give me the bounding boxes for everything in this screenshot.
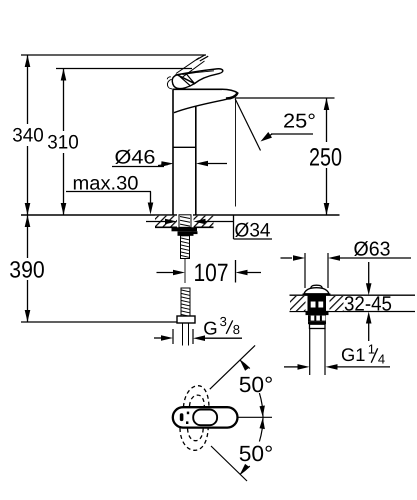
svg-text:4: 4 (378, 352, 385, 367)
svg-text:Ø34: Ø34 (235, 220, 271, 242)
svg-text:1: 1 (368, 342, 375, 357)
svg-text:8: 8 (233, 322, 240, 337)
top view small dash (180, 413, 184, 421)
dimension Ø63 (281, 255, 412, 261)
arc 50 upper (240, 360, 265, 417)
counter section bottom line (155, 226, 177, 228)
dimension G3/8 (154, 329, 242, 344)
faucet body (173, 89, 238, 215)
dimension 107 (157, 260, 262, 283)
svg-text:310: 310 (47, 132, 79, 154)
leader Ø46 underline and arrow (112, 161, 174, 167)
counter section hatch right (194, 216, 214, 227)
label G3/8 (203, 314, 240, 339)
label G1 1/4 (341, 342, 385, 367)
arc 50 lower (240, 417, 265, 474)
extension line top of handle (340 ref) (21, 54, 206, 56)
dimension G1 1/4 (284, 364, 390, 370)
dimension line 250 (324, 98, 330, 215)
handle knob (167, 74, 194, 89)
svg-text:G: G (203, 318, 217, 339)
leader Ø34 shelf (234, 215, 273, 240)
dimension line 390 (25, 215, 31, 322)
top view reference line (237, 416, 273, 418)
svg-text:25°: 25° (283, 111, 316, 133)
arrow Ø34 left (146, 219, 177, 225)
flexible hose threaded (181, 288, 190, 316)
drain counter band (290, 295, 416, 311)
counter top surface line (21, 214, 177, 216)
drain lock nut (306, 312, 329, 325)
svg-text:Ø46: Ø46 (115, 147, 156, 169)
svg-text:Ø63: Ø63 (354, 239, 391, 261)
center line below rod (184, 259, 186, 284)
extension line spout height (250 ref) (235, 97, 335, 99)
svg-text:250: 250 (309, 144, 342, 172)
arrow Ø34 right (194, 219, 234, 225)
mounting nut (178, 231, 198, 236)
top view dashed handle up position (184, 386, 210, 407)
svg-text:107: 107 (194, 259, 229, 287)
leader max.30 (66, 192, 153, 215)
svg-text:G1: G1 (341, 344, 365, 365)
top view tiny dots (187, 412, 189, 415)
threaded rod (181, 236, 190, 259)
svg-text:50°: 50° (239, 441, 274, 466)
handle raised position thin lines (176, 55, 208, 78)
extension line handle rest (310 ref) (56, 68, 192, 70)
drain collar (310, 324, 326, 328)
dimension 32-45 arrows (366, 262, 372, 341)
svg-text:3: 3 (220, 314, 227, 329)
svg-text:340: 340 (12, 125, 44, 147)
dimension line 340 (25, 55, 31, 215)
svg-text:390: 390 (9, 257, 45, 283)
arrow Ø46 right side (196, 161, 227, 167)
drain: flange extension lines (304, 253, 306, 288)
handle lever rest position (177, 69, 223, 84)
horseshoe washer (172, 227, 198, 231)
top view handle body (173, 407, 238, 427)
extension line hose end (390 ref) (21, 321, 177, 323)
hose tube (183, 323, 189, 346)
drain pipe (310, 329, 325, 376)
faucet shank thread through counter (179, 215, 191, 230)
counter section hatch left (155, 216, 177, 227)
dimension line 310 (61, 69, 67, 216)
svg-text:50°: 50° (239, 372, 274, 397)
25 degree ray from spout tip (235, 99, 261, 151)
leader 25 degree (261, 132, 314, 142)
hose nut (177, 316, 195, 323)
spout drop line (235, 99, 237, 207)
ray 50 down (211, 446, 247, 481)
top view lever inner (193, 410, 217, 426)
top view dashed handle down position (180, 428, 208, 450)
svg-text:32-45: 32-45 (344, 292, 392, 315)
drain cap dome (303, 285, 331, 294)
ray 50 up (210, 345, 255, 389)
drain body in counter (308, 295, 327, 312)
